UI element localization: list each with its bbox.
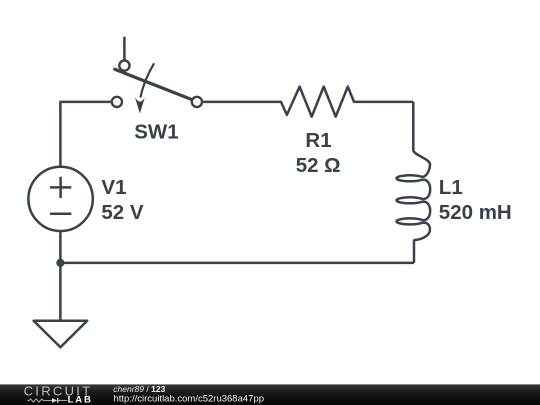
svg-text:52 Ω: 52 Ω — [296, 154, 341, 177]
svg-text:http://circuitlab.com/c52ru368: http://circuitlab.com/c52ru368a47pp — [114, 393, 265, 404]
svg-text:52 V: 52 V — [101, 201, 143, 224]
svg-text:LAB: LAB — [68, 395, 93, 405]
svg-text:R1: R1 — [305, 129, 331, 152]
svg-text:V1: V1 — [101, 176, 126, 199]
svg-text:520 mH: 520 mH — [439, 201, 512, 224]
svg-text:SW1: SW1 — [134, 121, 178, 144]
svg-text:L1: L1 — [439, 176, 463, 199]
